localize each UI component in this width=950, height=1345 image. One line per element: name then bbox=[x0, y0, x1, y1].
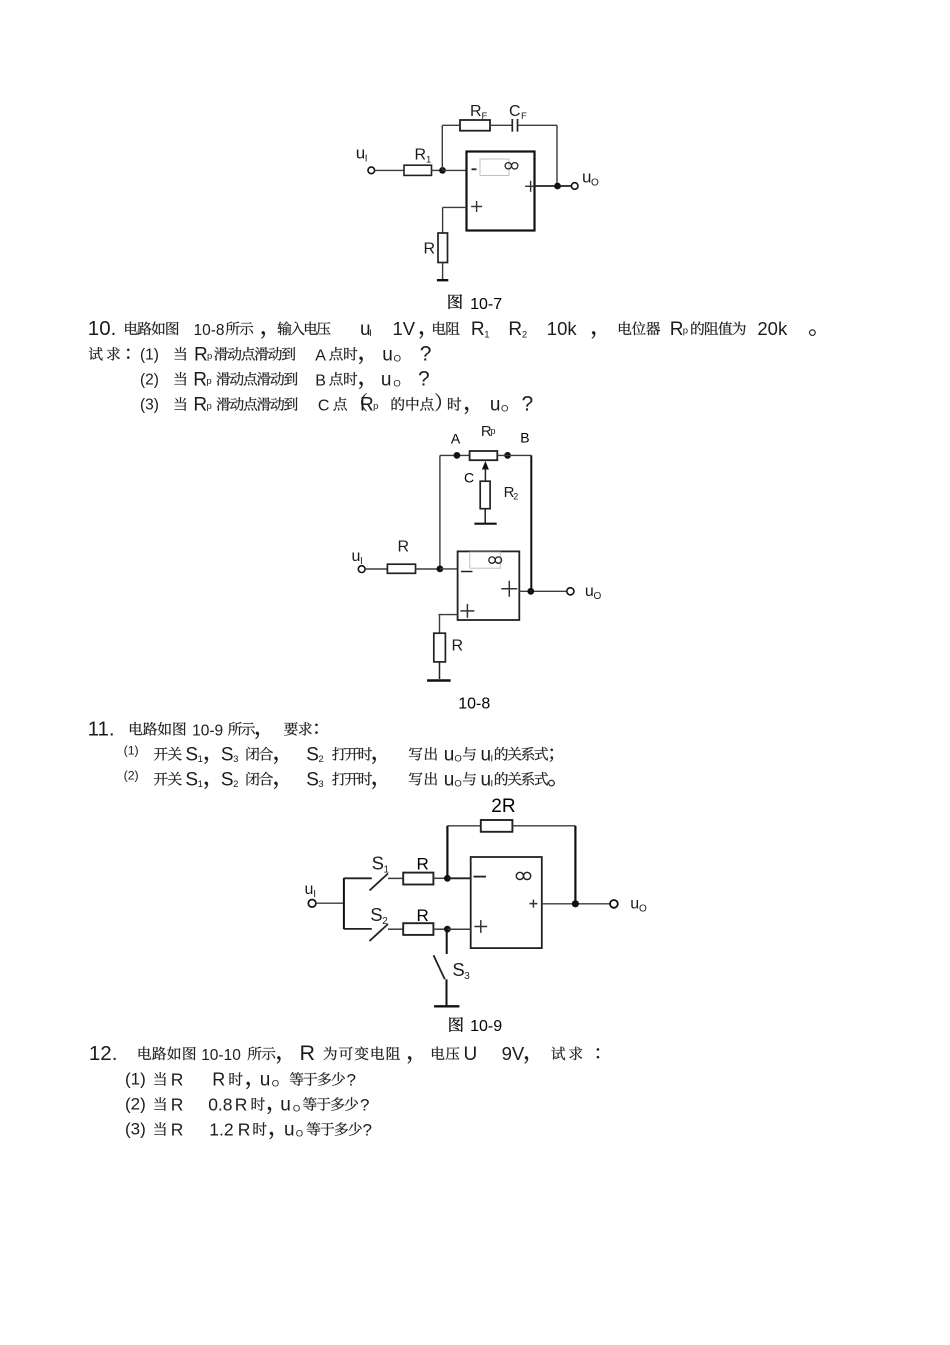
resistor R1 (fig 10-8) bbox=[387, 564, 415, 573]
resistor R lower (fig 10-9) bbox=[403, 923, 433, 935]
ground (fig 10-7) bbox=[437, 279, 448, 281]
svg-text:R: R bbox=[424, 241, 436, 258]
resistor 2R feedback bbox=[481, 820, 513, 832]
svg-text:?: ? bbox=[420, 342, 432, 365]
op-amp output plus sign bbox=[525, 181, 536, 192]
svg-text:U: U bbox=[464, 1044, 478, 1065]
svg-text:p: p bbox=[207, 351, 212, 362]
node u_O output terminal (fig 10-9) bbox=[610, 900, 618, 908]
svg-text:R: R bbox=[171, 1070, 184, 1090]
ground (fig 10-8) bbox=[427, 679, 451, 682]
wire S2 to R bbox=[388, 928, 403, 930]
junction node at inverting input (fig 10-8) bbox=[437, 566, 444, 573]
junction node at output (fig 10-8) bbox=[527, 588, 534, 595]
svg-text:S: S bbox=[372, 853, 384, 874]
svg-text:S: S bbox=[370, 904, 382, 925]
svg-text:S: S bbox=[185, 769, 198, 790]
label R (lower, fig 10-9) bbox=[417, 906, 429, 925]
svg-text:u: u bbox=[280, 1095, 291, 1116]
wire R to ground (fig 10-8) bbox=[439, 662, 441, 679]
junction node at inverting input (fig 10-9) bbox=[444, 875, 451, 882]
wire output riser (fig 10-9) bbox=[574, 826, 576, 904]
svg-text:F: F bbox=[521, 111, 527, 122]
wire node to op-amp (fig 10-8) bbox=[440, 568, 458, 570]
node u_O output terminal (fig 10-7) bbox=[571, 183, 578, 190]
label u_I (fig 10-8) bbox=[352, 548, 363, 567]
svg-text:10-9: 10-9 bbox=[470, 1018, 502, 1035]
label 2R bbox=[491, 796, 515, 817]
svg-text:I: I bbox=[369, 328, 372, 339]
label R1 bbox=[415, 147, 432, 166]
wire feedback left (fig 10-9) bbox=[447, 825, 480, 827]
op-amp infinity gain symbol (fig 10-9) bbox=[516, 872, 530, 879]
svg-text:R: R bbox=[670, 319, 684, 340]
svg-text:C: C bbox=[464, 470, 474, 486]
svg-text:I: I bbox=[491, 753, 494, 764]
caption 10-8 bbox=[458, 695, 490, 712]
wire feedback riser bbox=[441, 125, 443, 170]
wire feedback right (fig 10-9) bbox=[512, 825, 575, 827]
label u_O bbox=[582, 168, 599, 189]
label node C bbox=[464, 470, 474, 486]
wire top rail left bbox=[440, 454, 470, 456]
wire R to inverting node (fig 10-9) bbox=[433, 877, 447, 879]
svg-text:R: R bbox=[360, 395, 374, 416]
wire feedback top left bbox=[442, 124, 460, 126]
svg-text:R: R bbox=[398, 539, 410, 556]
svg-text:R: R bbox=[193, 369, 207, 390]
svg-text:u: u bbox=[381, 369, 392, 390]
svg-text:S: S bbox=[306, 744, 319, 765]
svg-text:R: R bbox=[415, 147, 427, 164]
svg-text:10.: 10. bbox=[88, 317, 117, 340]
wire node down to S3 bbox=[446, 929, 448, 954]
svg-text:3: 3 bbox=[464, 971, 470, 982]
svg-text:1.2: 1.2 bbox=[209, 1120, 233, 1140]
svg-text:O: O bbox=[454, 753, 461, 764]
svg-text:O: O bbox=[272, 1079, 279, 1090]
ground (fig 10-9) bbox=[434, 1005, 459, 1007]
potentiometer RP body bbox=[470, 451, 498, 460]
resistor R (ground leg, fig 10-7) bbox=[438, 233, 448, 263]
label S2 bbox=[370, 904, 388, 927]
label R bbox=[424, 241, 436, 258]
wire input to R1 bbox=[375, 169, 404, 171]
svg-text:0.8: 0.8 bbox=[208, 1095, 232, 1115]
wire input terminal to R1 bbox=[365, 568, 387, 570]
svg-text:O: O bbox=[594, 591, 602, 602]
wire op-amp output (fig 10-9) bbox=[542, 903, 610, 905]
svg-text:u: u bbox=[630, 896, 639, 913]
wire op-amp output bbox=[535, 185, 572, 187]
node u_O output terminal (fig 10-8) bbox=[567, 588, 574, 595]
switch S1 bbox=[344, 874, 388, 891]
svg-text:10-10: 10-10 bbox=[201, 1047, 241, 1064]
op-amp inverting input minus sign bbox=[472, 168, 477, 170]
svg-text:(1): (1) bbox=[125, 1069, 146, 1088]
wire R2 to ground bbox=[484, 509, 486, 523]
node B junction dot bbox=[504, 452, 511, 459]
svg-text:B: B bbox=[315, 372, 326, 389]
svg-text:R: R bbox=[194, 344, 208, 365]
svg-text:1: 1 bbox=[484, 330, 489, 341]
wire non-inverting input bbox=[443, 207, 467, 233]
svg-text:O: O bbox=[639, 904, 647, 915]
svg-text:2: 2 bbox=[318, 754, 323, 765]
label R2 bbox=[504, 484, 519, 502]
svg-text:R: R bbox=[300, 1041, 316, 1065]
svg-text:O: O bbox=[393, 378, 400, 389]
caption 图 10-7 bbox=[449, 294, 503, 313]
label CF bbox=[509, 103, 527, 122]
label S3 bbox=[452, 959, 470, 982]
op-amp infinity gain symbol (fig 10-8) bbox=[489, 557, 502, 563]
svg-text:I: I bbox=[365, 154, 368, 165]
label u_I (fig 10-9) bbox=[305, 881, 316, 900]
svg-text:?: ? bbox=[363, 1121, 372, 1140]
svg-text:R: R bbox=[171, 1095, 184, 1115]
svg-text:10-8: 10-8 bbox=[194, 322, 225, 339]
ground (below R2) bbox=[474, 523, 496, 525]
svg-text:I: I bbox=[313, 889, 316, 900]
svg-text:2: 2 bbox=[513, 492, 518, 502]
wire S1 to R bbox=[388, 877, 403, 879]
svg-text:R: R bbox=[508, 319, 522, 340]
svg-text:(3): (3) bbox=[125, 1119, 146, 1138]
svg-text:C: C bbox=[509, 103, 521, 120]
resistor R2 bbox=[480, 481, 490, 509]
op-amp U3 body (fig 10-9) bbox=[471, 857, 542, 948]
op-amp inner gain box (fig 10-8) bbox=[470, 552, 501, 568]
wire node to op-amp inverting input (fig 10-9) bbox=[447, 877, 470, 879]
svg-text:R: R bbox=[212, 1070, 225, 1090]
wire RF to CF bbox=[490, 124, 512, 126]
op-amp non-inverting plus sign (fig 10-8) bbox=[460, 604, 474, 618]
svg-text:u: u bbox=[481, 744, 492, 765]
svg-text:S: S bbox=[306, 769, 319, 790]
svg-text:u: u bbox=[382, 344, 393, 365]
label R (upper, fig 10-9) bbox=[417, 855, 429, 874]
op-amp non-inverting plus sign (fig 10-9) bbox=[474, 920, 487, 933]
svg-text:R: R bbox=[452, 638, 464, 655]
svg-text:20k: 20k bbox=[757, 318, 788, 339]
op-amp output plus sign (fig 10-9) bbox=[529, 900, 537, 908]
label u_I bbox=[356, 144, 368, 165]
resistor RF bbox=[460, 120, 490, 131]
svg-text:3: 3 bbox=[233, 754, 238, 765]
svg-text:R: R bbox=[470, 103, 482, 120]
wire R1 to inverting node bbox=[416, 568, 440, 570]
svg-text:R: R bbox=[235, 1095, 248, 1115]
svg-text:u: u bbox=[284, 1120, 295, 1141]
op-amp inverting input minus sign (fig 10-9) bbox=[474, 876, 487, 878]
label R (ground leg, fig 10-8) bbox=[452, 638, 464, 655]
label node B bbox=[520, 430, 529, 446]
wire op-amp output (fig 10-8) bbox=[519, 590, 567, 592]
svg-text:O: O bbox=[591, 178, 599, 189]
resistor R upper (fig 10-9) bbox=[403, 873, 433, 885]
svg-text:p: p bbox=[491, 426, 496, 436]
junction node at output bbox=[554, 183, 561, 190]
svg-text:(1): (1) bbox=[124, 743, 139, 757]
wire node to op-amp inverting input bbox=[443, 169, 467, 171]
svg-text:1V: 1V bbox=[393, 318, 416, 339]
svg-text:I: I bbox=[491, 778, 494, 789]
wire non-inverting input (fig 10-8) bbox=[438, 615, 457, 634]
svg-text:2R: 2R bbox=[491, 796, 515, 817]
svg-text:A: A bbox=[451, 431, 461, 447]
svg-text:u: u bbox=[585, 583, 594, 600]
svg-text:?: ? bbox=[522, 393, 534, 416]
label RP bbox=[481, 423, 496, 440]
svg-text:2: 2 bbox=[522, 330, 527, 341]
svg-text:10k: 10k bbox=[547, 318, 578, 339]
op-amp output plus sign (fig 10-8) bbox=[501, 581, 517, 597]
svg-text:(2): (2) bbox=[140, 371, 159, 388]
svg-text:u: u bbox=[260, 1070, 271, 1091]
node A junction dot bbox=[454, 452, 461, 459]
svg-text:11.: 11. bbox=[88, 717, 115, 740]
svg-text:1: 1 bbox=[198, 779, 203, 790]
node u_I input terminal (fig 10-9) bbox=[308, 900, 316, 908]
svg-text:(1): (1) bbox=[140, 346, 159, 363]
svg-text:?: ? bbox=[347, 1071, 356, 1090]
svg-text:p: p bbox=[206, 376, 211, 387]
node u_I input terminal (fig 10-7) bbox=[368, 167, 375, 174]
svg-text:10-8: 10-8 bbox=[458, 695, 490, 712]
svg-text:?: ? bbox=[418, 367, 430, 390]
svg-text:A: A bbox=[315, 347, 326, 364]
junction node at non-inverting input (fig 10-9) bbox=[444, 926, 451, 933]
wire R1 to inverting node bbox=[432, 169, 443, 171]
wire S3 to ground bbox=[446, 979, 448, 1006]
svg-text:2: 2 bbox=[233, 779, 238, 790]
svg-text:1: 1 bbox=[198, 754, 203, 765]
svg-text:(3): (3) bbox=[140, 397, 159, 414]
label R1 (fig 10-8) bbox=[398, 539, 410, 556]
wire CF to output riser bbox=[518, 124, 558, 126]
caption 图 10-9 bbox=[449, 1017, 502, 1035]
label RF bbox=[470, 103, 488, 122]
svg-text:S: S bbox=[221, 769, 234, 790]
label node A bbox=[451, 431, 461, 447]
svg-text:B: B bbox=[520, 430, 529, 446]
svg-text:O: O bbox=[293, 1104, 300, 1115]
svg-text:R: R bbox=[238, 1120, 251, 1140]
svg-text:2: 2 bbox=[382, 916, 388, 927]
op-amp U1 body (fig 10-7) bbox=[467, 152, 535, 231]
switch S2 bbox=[344, 924, 388, 941]
svg-text:(2): (2) bbox=[124, 768, 139, 782]
wire output riser bbox=[556, 125, 558, 186]
svg-text:O: O bbox=[394, 353, 401, 364]
svg-text:O: O bbox=[296, 1129, 303, 1140]
svg-text:R: R bbox=[171, 1120, 184, 1140]
wire right branch down to output node bbox=[530, 455, 532, 591]
wire R to ground bbox=[442, 263, 444, 280]
resistor R1 bbox=[404, 165, 432, 175]
op-amp non-inverting plus sign bbox=[471, 201, 482, 212]
wire left branch down to inverting node bbox=[439, 455, 441, 569]
potentiometer wiper arrow (node C) bbox=[482, 461, 489, 481]
svg-text:9V: 9V bbox=[502, 1043, 525, 1064]
wire branch riser bbox=[343, 878, 345, 929]
op-amp U2 body (fig 10-8) bbox=[458, 551, 520, 620]
junction node at output (fig 10-9) bbox=[572, 900, 579, 907]
node u_I input terminal (fig 10-8) bbox=[358, 566, 365, 573]
svg-text:C: C bbox=[318, 398, 330, 415]
wire top rail right bbox=[497, 454, 531, 456]
svg-text:R: R bbox=[417, 906, 429, 925]
switch S3 bbox=[434, 955, 445, 979]
wire feedback riser to inverting node bbox=[446, 826, 448, 878]
svg-text:p: p bbox=[683, 326, 688, 337]
wire input to branch junction bbox=[316, 902, 344, 904]
svg-text:R: R bbox=[193, 395, 207, 416]
svg-text:S: S bbox=[221, 744, 234, 765]
svg-text:p: p bbox=[373, 401, 378, 412]
svg-text:S: S bbox=[452, 959, 464, 980]
svg-text:(2): (2) bbox=[125, 1094, 146, 1113]
svg-text:u: u bbox=[305, 881, 314, 898]
svg-text:R: R bbox=[471, 319, 485, 340]
svg-text:R: R bbox=[417, 855, 429, 874]
svg-text:F: F bbox=[482, 111, 488, 122]
svg-text:1: 1 bbox=[384, 865, 390, 876]
svg-text:10-9: 10-9 bbox=[192, 722, 223, 739]
svg-text:u: u bbox=[444, 769, 455, 790]
svg-text:1: 1 bbox=[426, 155, 431, 166]
junction node at inverting input bbox=[439, 167, 446, 174]
wire node to op-amp non-inverting input (fig 10-9) bbox=[447, 928, 470, 930]
svg-text:12.: 12. bbox=[89, 1042, 118, 1065]
label S1 bbox=[372, 853, 390, 876]
op-amp inner gain box bbox=[480, 159, 509, 176]
capacitor CF bbox=[512, 119, 517, 132]
label u_O (fig 10-8) bbox=[585, 583, 602, 602]
svg-text:S: S bbox=[185, 744, 198, 765]
svg-text:u: u bbox=[481, 769, 492, 790]
label u_O (fig 10-9) bbox=[630, 896, 647, 915]
svg-text:O: O bbox=[501, 404, 508, 415]
svg-text:?: ? bbox=[360, 1096, 369, 1115]
wire R to non-inverting node (fig 10-9) bbox=[433, 928, 447, 930]
op-amp inverting input minus sign (fig 10-8) bbox=[461, 571, 473, 573]
op-amp infinity gain symbol bbox=[505, 163, 518, 169]
svg-text:u: u bbox=[490, 395, 501, 416]
svg-text:O: O bbox=[454, 778, 461, 789]
resistor R (ground leg, fig 10-8) bbox=[434, 633, 446, 662]
svg-text:3: 3 bbox=[318, 779, 323, 790]
svg-text:p: p bbox=[207, 401, 212, 412]
svg-text:10-7: 10-7 bbox=[470, 296, 502, 313]
svg-text:u: u bbox=[444, 744, 455, 765]
